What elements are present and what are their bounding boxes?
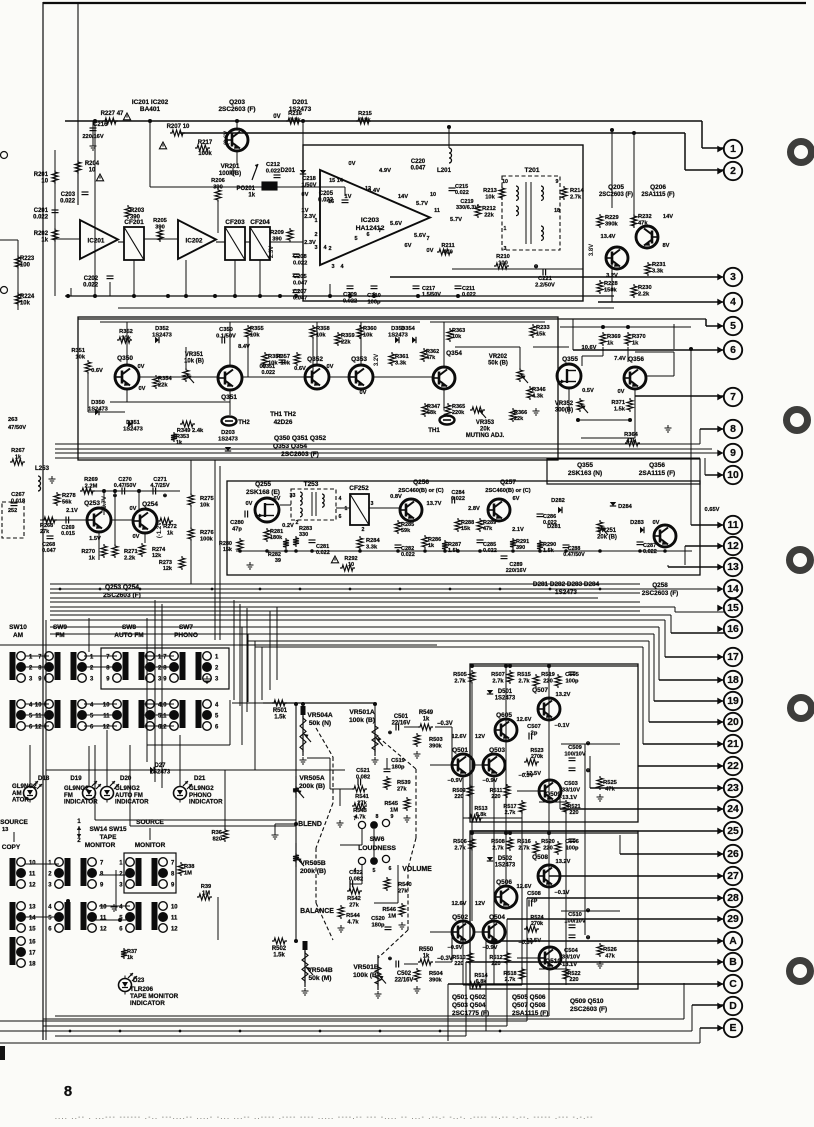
svg-text:7.4V: 7.4V [614, 356, 626, 362]
svg-text:13.2V: 13.2V [556, 859, 571, 865]
svg-text:23: 23 [727, 783, 739, 794]
svg-text:Q206: Q206 [650, 184, 666, 191]
svg-text:Q253 Q254: Q253 Q254 [105, 584, 139, 591]
svg-text:Q503 Q504: Q503 Q504 [452, 1002, 486, 1009]
svg-text:FM: FM [55, 632, 64, 639]
svg-text:47/50V: 47/50V [8, 425, 26, 431]
svg-text:12: 12 [160, 725, 167, 731]
svg-text:⊕: ⊕ [534, 264, 539, 270]
svg-text:2SC1775 (F): 2SC1775 (F) [452, 1010, 489, 1017]
svg-text:5.7V: 5.7V [416, 201, 428, 207]
svg-text:15: 15 [29, 927, 36, 933]
svg-text:12.6V: 12.6V [452, 734, 467, 740]
svg-text:R391M: R391M [201, 884, 212, 896]
svg-text:⊕: ⊕ [163, 493, 167, 499]
svg-text:T253: T253 [304, 481, 319, 488]
svg-text:Q350: Q350 [117, 355, 133, 362]
svg-text:18: 18 [554, 208, 560, 214]
svg-text:D284: D284 [618, 504, 632, 510]
svg-text:2: 2 [77, 837, 81, 844]
svg-text:8: 8 [64, 1084, 72, 1100]
svg-text:TAPE: TAPE [100, 834, 117, 841]
svg-text:Q350 Q351 Q352: Q350 Q351 Q352 [274, 435, 326, 442]
svg-text:D23: D23 [133, 977, 145, 984]
svg-text:CF204: CF204 [250, 219, 270, 226]
svg-text:Q355: Q355 [562, 356, 578, 363]
svg-text:12: 12 [35, 725, 42, 731]
svg-text:VR504A: VR504A [307, 712, 332, 719]
svg-text:0V: 0V [260, 364, 267, 370]
svg-text:–0.1V: –0.1V [555, 723, 570, 729]
svg-text:VR352300(B): VR352300(B) [555, 401, 574, 414]
svg-text:0V: 0V [653, 520, 660, 526]
svg-text:13.4V: 13.4V [601, 234, 616, 240]
svg-text:6V: 6V [513, 496, 520, 502]
svg-text:Q205: Q205 [608, 184, 624, 191]
svg-text:19: 19 [727, 696, 739, 707]
svg-text:R504390k: R504390k [429, 971, 443, 983]
svg-text:3: 3 [371, 501, 374, 507]
svg-text:R207 10: R207 10 [167, 124, 190, 130]
svg-text:D201: D201 [281, 168, 296, 174]
svg-text:10.7V: 10.7V [102, 496, 108, 512]
svg-text:10: 10 [103, 703, 110, 709]
svg-text:16: 16 [29, 940, 36, 946]
svg-text:VR505B: VR505B [300, 860, 325, 867]
svg-text:11: 11 [103, 714, 110, 720]
svg-text:R511220: R511220 [490, 788, 503, 800]
svg-text:–0.3V: –0.3V [437, 956, 453, 962]
svg-text:13.7V: 13.7V [427, 501, 442, 507]
svg-text:5: 5 [354, 236, 357, 242]
svg-text:3: 3 [331, 264, 334, 270]
svg-text:A: A [729, 936, 737, 947]
svg-text:10: 10 [35, 703, 42, 709]
svg-text:C2840.022: C2840.022 [451, 490, 465, 502]
svg-text:(-1.2V: (-1.2V [157, 522, 163, 538]
svg-text:2SC2603 (F): 2SC2603 (F) [599, 192, 633, 198]
svg-text:6: 6 [366, 232, 369, 238]
svg-text:2SC2603 (F): 2SC2603 (F) [642, 590, 679, 597]
svg-text:R2163.8k: R2163.8k [288, 111, 302, 123]
svg-text:0.65V: 0.65V [705, 507, 720, 513]
svg-text:R5136.8k: R5136.8k [474, 806, 487, 818]
svg-text:5: 5 [373, 868, 376, 874]
svg-text:TH1 TH2: TH1 TH2 [270, 411, 296, 418]
svg-text:11: 11 [29, 872, 36, 878]
svg-text:4.9V: 4.9V [379, 168, 391, 174]
svg-text:Q509 Q510: Q509 Q510 [570, 998, 604, 1005]
svg-text:SOURCE: SOURCE [0, 819, 28, 826]
svg-text:12: 12 [103, 725, 110, 731]
svg-text:100k (B): 100k (B) [353, 972, 379, 979]
svg-text:Q501 Q502: Q501 Q502 [452, 994, 486, 1001]
svg-text:200k (B): 200k (B) [300, 868, 326, 875]
svg-text:C2080.022: C2080.022 [293, 254, 307, 266]
svg-text:VR504B: VR504B [307, 967, 332, 974]
svg-text:R227 47: R227 47 [101, 111, 124, 117]
svg-text:18: 18 [727, 675, 739, 686]
svg-text:C2090.022: C2090.022 [343, 292, 357, 304]
svg-text:0.2V: 0.2V [282, 523, 294, 529]
svg-text:13: 13 [2, 827, 8, 833]
svg-text:0.5V: 0.5V [582, 388, 594, 394]
svg-text:5: 5 [730, 321, 736, 332]
svg-text:PHONO: PHONO [174, 632, 198, 639]
svg-text:R5011.5k: R5011.5k [273, 708, 288, 721]
svg-text:R3711.5k: R3711.5k [611, 400, 625, 412]
svg-text:SW8: SW8 [122, 624, 136, 631]
svg-text:21: 21 [727, 739, 739, 750]
svg-text:D282: D282 [551, 498, 565, 504]
svg-text:MONITOR: MONITOR [85, 842, 116, 849]
svg-text:2.3V: 2.3V [304, 214, 316, 220]
svg-text:13.2V: 13.2V [556, 692, 571, 698]
svg-text:R281180k: R281180k [270, 529, 283, 541]
svg-text:2SC2603 (F): 2SC2603 (F) [570, 1006, 607, 1013]
svg-text:R524270k: R524270k [530, 915, 544, 927]
svg-text:Q355: Q355 [577, 462, 593, 469]
svg-text:1: 1 [504, 226, 507, 232]
svg-text:⊕: ⊕ [586, 768, 591, 774]
svg-text:0V: 0V [426, 248, 433, 254]
svg-text:VR35110k (B): VR35110k (B) [184, 352, 204, 365]
svg-text:2SK168 (E): 2SK168 (E) [246, 489, 280, 496]
svg-text:2SC460(B) or (C): 2SC460(B) or (C) [398, 488, 444, 494]
svg-text:12: 12 [727, 541, 739, 552]
svg-text:0V: 0V [138, 364, 145, 370]
svg-text:50k (N): 50k (N) [309, 720, 331, 727]
svg-text:29: 29 [727, 914, 739, 925]
svg-text:263: 263 [8, 417, 18, 423]
svg-text:2SA1115 (F): 2SA1115 (F) [641, 192, 674, 198]
svg-text:C: C [729, 979, 737, 990]
svg-text:B: B [729, 957, 737, 968]
svg-text:14V: 14V [398, 194, 408, 200]
svg-text:12: 12 [29, 883, 36, 889]
svg-text:C5210.082: C5210.082 [356, 768, 371, 780]
svg-text:17: 17 [29, 951, 36, 957]
svg-text:R5082.7k: R5082.7k [491, 839, 505, 851]
svg-text:Q354: Q354 [446, 350, 462, 357]
svg-text:AUTO FM: AUTO FM [114, 632, 143, 639]
svg-text:SW10: SW10 [9, 624, 27, 631]
svg-text:12.6V: 12.6V [452, 901, 467, 907]
svg-text:10: 10 [100, 905, 107, 911]
svg-text:9: 9 [556, 179, 559, 185]
svg-text:9: 9 [391, 814, 394, 820]
svg-text:25: 25 [727, 826, 739, 837]
svg-text:Q507: Q507 [532, 687, 548, 694]
svg-text:11: 11 [434, 208, 440, 214]
svg-text:2.3V: 2.3V [304, 240, 316, 246]
svg-text:3: 3 [293, 493, 296, 499]
svg-text:CF201: CF201 [124, 219, 144, 226]
svg-text:⊕: ⊕ [388, 730, 392, 736]
svg-text:6V: 6V [274, 496, 281, 502]
svg-text:–0.9V: –0.9V [483, 778, 498, 784]
svg-text:–0.9V: –0.9V [483, 945, 498, 951]
svg-text:IC201: IC201 [87, 238, 104, 245]
svg-text:10: 10 [430, 192, 436, 198]
svg-text:13: 13 [29, 905, 36, 911]
svg-text:D283: D283 [630, 520, 644, 526]
svg-text:10: 10 [727, 470, 739, 481]
svg-text:R5062.7k: R5062.7k [453, 839, 467, 851]
svg-text:0V: 0V [348, 161, 355, 167]
svg-text:R5072.7k: R5072.7k [491, 672, 505, 684]
svg-text:C210100p: C210100p [367, 293, 381, 305]
svg-text:R228150k: R228150k [604, 281, 618, 293]
svg-text:C28047p: C28047p [230, 520, 244, 532]
svg-text:1V: 1V [344, 194, 351, 200]
svg-text:26: 26 [727, 849, 739, 860]
svg-text:9: 9 [730, 448, 736, 459]
svg-text:T201: T201 [524, 167, 539, 174]
svg-text:0V: 0V [130, 506, 137, 512]
svg-text:VOLUME: VOLUME [402, 866, 432, 873]
svg-text:R5052.7k: R5052.7k [453, 672, 467, 684]
svg-text:R2153.8k: R2153.8k [358, 111, 372, 123]
svg-text:IC202: IC202 [185, 238, 202, 245]
svg-text:C2010.022: C2010.022 [33, 208, 49, 221]
svg-text:11: 11 [160, 714, 167, 720]
svg-text:C2030.022: C2030.022 [60, 192, 76, 205]
svg-text:15 14: 15 14 [329, 178, 344, 184]
svg-text:12V: 12V [475, 734, 485, 740]
svg-text:15: 15 [727, 603, 739, 614]
svg-text:D201: D201 [292, 99, 308, 106]
svg-text:Q507 Q508: Q507 Q508 [512, 1002, 546, 1009]
svg-text:2.1V: 2.1V [66, 508, 78, 514]
svg-text:14V: 14V [663, 214, 673, 220]
svg-text:SW14 SW15: SW14 SW15 [89, 826, 127, 833]
svg-text:0.6V: 0.6V [294, 366, 306, 372]
svg-text:R365220k: R365220k [452, 404, 465, 416]
svg-text:D: D [729, 1001, 737, 1012]
svg-text:C505100p: C505100p [565, 672, 579, 684]
svg-text:3: 3 [504, 246, 507, 252]
svg-text:R217: R217 [198, 140, 213, 146]
svg-text:CF203: CF203 [225, 219, 245, 226]
svg-text:6: 6 [339, 514, 342, 520]
svg-text:2: 2 [314, 232, 317, 238]
svg-text:27: 27 [727, 871, 739, 882]
svg-text:C2870.022: C2870.022 [643, 543, 657, 555]
svg-text:R276100k: R276100k [200, 530, 214, 542]
svg-text:0V: 0V [133, 534, 140, 540]
svg-text:.... ..-- . ...--- ------ .-: .... ..-- . ...--- ------ .-.. ---....--… [55, 1114, 594, 1121]
svg-text:2: 2 [362, 527, 365, 533]
svg-text:7: 7 [426, 236, 429, 242]
svg-text:E: E [730, 1023, 737, 1034]
svg-text:12: 12 [100, 927, 107, 933]
svg-text:C519180p: C519180p [391, 758, 405, 770]
svg-text:12: 12 [171, 927, 178, 933]
svg-text:22: 22 [727, 761, 739, 772]
svg-text:C2070.047: C2070.047 [293, 289, 307, 301]
svg-text:7: 7 [730, 392, 736, 403]
svg-text:⊕: ⊕ [388, 956, 392, 962]
svg-text:–13.1V: –13.1V [559, 795, 577, 801]
svg-text:IC203: IC203 [361, 217, 379, 224]
svg-text:C2690.015: C2690.015 [61, 525, 75, 537]
svg-text:C520180p: C520180p [371, 916, 385, 928]
svg-text:50k (M): 50k (M) [308, 975, 331, 982]
svg-text:C506100p: C506100p [565, 839, 579, 851]
svg-text:R36820: R36820 [212, 830, 223, 842]
svg-text:8: 8 [730, 424, 736, 435]
svg-text:5.7V: 5.7V [450, 217, 462, 223]
svg-text:2: 2 [328, 246, 331, 252]
svg-text:Q356: Q356 [628, 356, 644, 363]
svg-text:L201: L201 [437, 167, 452, 174]
svg-text:C2181/50V: C2181/50V [302, 176, 317, 188]
svg-text:42D26: 42D26 [274, 419, 293, 426]
svg-text:C2820.022: C2820.022 [401, 546, 415, 558]
svg-text:2SC2603 (F): 2SC2603 (F) [218, 106, 255, 113]
svg-text:4: 4 [730, 297, 736, 308]
svg-text:12.6V: 12.6V [517, 717, 532, 723]
svg-text:Q258: Q258 [652, 582, 668, 589]
svg-text:10: 10 [171, 905, 178, 911]
svg-text:2.3V: 2.3V [269, 246, 275, 258]
svg-text:10: 10 [160, 703, 167, 709]
svg-text:BA401: BA401 [140, 106, 161, 113]
svg-text:17: 17 [727, 652, 739, 663]
svg-text:2.1V: 2.1V [512, 527, 524, 533]
svg-text:D18: D18 [38, 775, 50, 782]
svg-text:R229390k: R229390k [605, 215, 619, 227]
svg-text:Q254: Q254 [142, 501, 158, 508]
svg-text:VR201100k(B): VR201100k(B) [219, 163, 241, 177]
svg-text:LOUDNESS: LOUDNESS [358, 845, 396, 852]
svg-text:0V: 0V [139, 386, 146, 392]
svg-text:–0.3V: –0.3V [519, 773, 534, 779]
svg-text:Q203: Q203 [229, 99, 245, 106]
svg-text:C5220.082: C5220.082 [349, 870, 363, 882]
svg-text:12.6V: 12.6V [517, 884, 532, 890]
svg-text:16: 16 [328, 199, 334, 205]
svg-text:0V: 0V [301, 192, 308, 198]
svg-text:5.6V: 5.6V [390, 221, 402, 227]
svg-text:Q351: Q351 [221, 394, 237, 401]
svg-text:C2200.047: C2200.047 [411, 159, 427, 172]
svg-text:IC201 IC202: IC201 IC202 [132, 99, 169, 106]
svg-text:R523270k: R523270k [530, 748, 544, 760]
svg-text:C50122/16V: C50122/16V [392, 714, 411, 727]
svg-text:11: 11 [100, 916, 107, 922]
svg-text:R5182.7k: R5182.7k [503, 971, 516, 983]
svg-text:7: 7 [354, 816, 357, 822]
svg-text:D19: D19 [70, 775, 82, 782]
svg-text:–0.3V: –0.3V [519, 940, 534, 946]
svg-text:1: 1 [730, 144, 736, 155]
svg-text:C2680.047: C2680.047 [42, 542, 56, 554]
svg-text:Q257: Q257 [500, 479, 516, 486]
svg-text:2.8V: 2.8V [468, 506, 480, 512]
svg-text:10.6V: 10.6V [582, 345, 597, 351]
svg-text:10: 10 [29, 861, 36, 867]
svg-text:–13.1V: –13.1V [559, 962, 577, 968]
svg-text:C2110.022: C2110.022 [462, 286, 476, 298]
svg-text:VR501A: VR501A [349, 709, 374, 716]
svg-text:0V: 0V [618, 389, 625, 395]
svg-text:C50433/10V: C50433/10V [562, 948, 580, 960]
svg-text:Q505 Q506: Q505 Q506 [512, 994, 546, 1001]
svg-text:12V: 12V [475, 901, 485, 907]
svg-text:11: 11 [35, 714, 42, 720]
svg-text:D21: D21 [194, 775, 206, 782]
svg-text:20: 20 [727, 717, 739, 728]
svg-text:(0.6V: (0.6V [224, 131, 230, 145]
svg-text:14: 14 [727, 584, 739, 595]
svg-text:R5444.7k: R5444.7k [346, 913, 360, 925]
svg-text:C50333/10V: C50333/10V [562, 781, 580, 793]
svg-text:AM: AM [13, 632, 23, 639]
svg-text:18: 18 [29, 962, 36, 968]
svg-text:–0.9V: –0.9V [448, 945, 463, 951]
svg-text:TH1: TH1 [428, 428, 440, 434]
svg-text:0.8V: 0.8V [390, 494, 402, 500]
svg-text:8V: 8V [663, 243, 670, 249]
svg-text:–0.1V: –0.1V [555, 890, 570, 896]
svg-text:–0.9V: –0.9V [448, 778, 463, 784]
svg-text:Q255: Q255 [255, 481, 271, 488]
svg-text:SW9: SW9 [53, 624, 67, 631]
svg-text:24: 24 [727, 804, 739, 815]
svg-text:200k (B): 200k (B) [299, 783, 325, 790]
svg-text:1: 1 [77, 818, 81, 825]
svg-text:C2150.022: C2150.022 [455, 184, 469, 196]
svg-text:6: 6 [389, 866, 392, 872]
svg-text:100k: 100k [198, 151, 212, 157]
svg-text:2SC2603 (F): 2SC2603 (F) [281, 451, 319, 458]
svg-text:SW7: SW7 [179, 624, 193, 631]
svg-text:VR505A: VR505A [299, 775, 324, 782]
svg-text:8: 8 [376, 814, 379, 820]
svg-text:C2810.022: C2810.022 [316, 544, 330, 556]
svg-text:0.4V: 0.4V [368, 188, 380, 194]
svg-text:COPY: COPY [2, 844, 21, 851]
svg-text:C2050.047: C2050.047 [293, 274, 307, 286]
svg-text:–0.3V: –0.3V [437, 721, 453, 727]
svg-text:3: 3 [730, 272, 736, 283]
svg-text:16: 16 [727, 624, 739, 635]
svg-text:5.6V: 5.6V [414, 233, 426, 239]
svg-text:L253: L253 [35, 465, 50, 472]
svg-text:1: 1 [345, 506, 348, 512]
svg-text:VR501B: VR501B [353, 964, 378, 971]
svg-text:VR20250k (B): VR20250k (B) [488, 354, 508, 367]
svg-text:28: 28 [727, 893, 739, 904]
svg-text:6V: 6V [404, 243, 411, 249]
svg-text:Q353: Q353 [351, 356, 367, 363]
svg-text:C2120.022: C2120.022 [266, 162, 281, 174]
svg-text:0V: 0V [327, 364, 334, 370]
svg-text:7: 7 [378, 228, 381, 234]
svg-text:6: 6 [730, 345, 736, 356]
svg-text:C50222/16V: C50222/16V [395, 971, 414, 984]
svg-text:3.8V: 3.8V [589, 244, 595, 256]
svg-text:R5021.5k: R5021.5k [272, 946, 287, 959]
svg-text:SW6: SW6 [370, 836, 385, 843]
svg-text:14: 14 [29, 916, 36, 922]
svg-text:CF252: CF252 [349, 485, 369, 492]
svg-text:11: 11 [171, 916, 178, 922]
svg-text:0V: 0V [246, 501, 253, 507]
svg-text:Q256: Q256 [413, 479, 429, 486]
